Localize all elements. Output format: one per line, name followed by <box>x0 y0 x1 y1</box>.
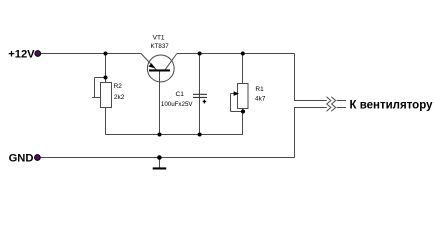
svg-text:GND: GND <box>9 153 34 165</box>
svg-text:VT1: VT1 <box>153 35 165 42</box>
svg-text:KT837: KT837 <box>150 43 169 50</box>
svg-text:+12V: +12V <box>8 49 35 61</box>
svg-text:К вентилятору: К вентилятору <box>350 99 434 111</box>
svg-text:C1: C1 <box>176 91 185 98</box>
svg-text:100uFx25V: 100uFx25V <box>161 101 194 108</box>
svg-text:R2: R2 <box>114 83 123 90</box>
svg-text:4k7: 4k7 <box>255 96 266 103</box>
svg-text:2k2: 2k2 <box>114 94 125 101</box>
svg-text:R1: R1 <box>255 86 264 93</box>
